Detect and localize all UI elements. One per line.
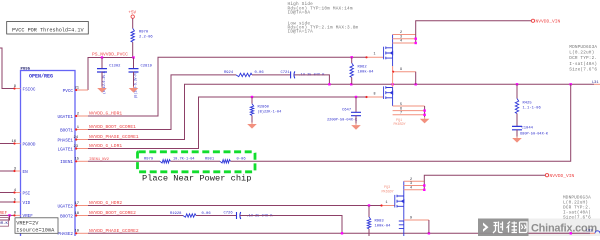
ground below PQ1: [424, 117, 426, 119]
svg-text:R924: R924: [224, 71, 234, 75]
capacitor C2819: [129, 69, 139, 72]
svg-text:9: 9: [410, 216, 412, 220]
svg-text:100k-04: 100k-04: [375, 224, 392, 229]
ground below C2819: [133, 87, 135, 89]
wire BOOT1 net: [88, 75, 236, 130]
wire LGATE to C647: [355, 97, 357, 112]
wire PHASE1 / switch node to L31: [88, 84, 594, 139]
wire R924 to C721: [252, 74, 291, 76]
wire pin9 to phase: [415, 72, 417, 85]
pin stub L32: [590, 232, 595, 234]
junction phase/C721: [328, 83, 330, 85]
svg-text:.1U-25-04X-K: .1U-25-04X-K: [299, 74, 326, 78]
op-amp U1: PWM controller PU95 box: [21, 71, 76, 240]
junction phase/ISEN riser: [570, 83, 572, 85]
wire R970 to PVCC net: [132, 42, 134, 57]
wire PHASE2 / switch node 2: [88, 232, 590, 234]
wire LGATE1 net: [88, 97, 366, 149]
wire phase to R425: [516, 84, 518, 98]
wire C2819 to gnd: [133, 72, 135, 87]
svg-text:DCR TYP:2.: DCR TYP:2.: [569, 56, 597, 61]
note box: PVCC POR Threshold: [7, 22, 89, 35]
pin stub PQ3 pin2: [404, 180, 425, 182]
resistor R981: [220, 160, 231, 163]
drain lead PQ1 high: [392, 35, 394, 48]
pin stub PQ1 pin6: [393, 110, 425, 112]
pin stub PQ3 pin9: [404, 219, 429, 221]
svg-text:I-sat(40A): I-sat(40A): [569, 62, 597, 67]
svg-text:PVCC POR Threshold=4.1V: PVCC POR Threshold=4.1V: [12, 27, 84, 33]
junction pin3: [415, 38, 417, 40]
wire R979 to R981: [171, 160, 221, 162]
svg-text:BOOT1: BOOT1: [60, 128, 73, 133]
svg-text:C647: C647: [342, 109, 351, 113]
wire UGATE2 to R983: [368, 206, 370, 218]
svg-text:9: 9: [400, 68, 402, 72]
pin stub PQ3 pin4: [404, 189, 425, 191]
svg-text:Place Near Power chip: Place Near Power chip: [142, 174, 251, 184]
svg-text:R970: R970: [139, 31, 149, 35]
svg-text:(B)22K-1-04: (B)22K-1-04: [258, 110, 282, 115]
off-page connector NVVDD_VIN bottom: [545, 174, 548, 177]
pin stub ISEN1: [75, 160, 88, 162]
wire PQ3 drain bus to VIN: [424, 175, 545, 190]
svg-text:R983: R983: [375, 220, 385, 224]
source lead PQ3: [403, 206, 405, 236]
wire C647 to gnd: [355, 116, 357, 124]
inductor L32 coil (cut off): [595, 231, 600, 234]
svg-text:PU95: PU95: [21, 68, 31, 72]
svg-text:L32: L32: [586, 230, 592, 234]
resistor R983: [367, 217, 370, 229]
capacitor C1044: [512, 126, 522, 129]
wire VID net: [0, 201, 14, 203]
junction pin6: [423, 109, 425, 111]
svg-text:NVVDD_VIN: NVVDD_VIN: [536, 18, 561, 24]
svg-text:R1928: R1928: [170, 212, 182, 216]
resistor R970: [131, 28, 134, 42]
watermark CJK glyphs (drawn): [493, 222, 527, 234]
wire BOOT2 net: [88, 215, 183, 217]
off-page connector NVVDD_VIN top: [531, 19, 534, 22]
svg-text:PSI: PSI: [23, 191, 31, 196]
junction C1302: [101, 56, 103, 58]
svg-text:R425: R425: [523, 101, 533, 105]
wire C1044 to gnd: [516, 130, 518, 137]
svg-text:NB_REF: NB_REF: [0, 212, 8, 216]
svg-text:4: 4: [400, 40, 402, 44]
pin stub UGATE1: [75, 115, 88, 117]
svg-text:PHASE2: PHASE2: [58, 232, 74, 236]
pin stub PHASE1: [75, 139, 88, 141]
junction pin7: [423, 114, 425, 116]
pin stub LGATE1: [75, 148, 88, 150]
svg-text:LGATE1: LGATE1: [58, 147, 74, 152]
svg-text:1.1-1-06: 1.1-1-06: [523, 106, 542, 110]
resistor R1928: [183, 214, 196, 217]
svg-text:1: 1: [373, 53, 375, 57]
phase2 wire segment over watermark: [529, 232, 591, 234]
pin stub PQ1 pin3: [393, 38, 416, 40]
pin stub PGOOD: [14, 143, 21, 145]
svg-text:UGATE1: UGATE1: [58, 115, 74, 120]
pin stub BOOT1: [75, 129, 88, 131]
svg-text:L31: L31: [592, 81, 598, 85]
svg-text:PHASE1: PHASE1: [58, 138, 74, 143]
svg-text:R962: R962: [358, 65, 368, 69]
svg-text:PQ3: PQ3: [384, 186, 390, 190]
wire UGATE1 to R962: [351, 57, 353, 63]
pin stub PHASE2: [75, 232, 88, 234]
pin stub VREF: [14, 214, 21, 216]
pin stub PSI: [14, 192, 21, 194]
junction phase/R962: [350, 83, 352, 85]
junction phase2/C726: [341, 232, 343, 234]
capacitor C647: [351, 112, 361, 115]
inductor L32 coil (over watermark, cut off): [595, 231, 600, 234]
svg-text:MDNPUD6G3A: MDNPUD6G3A: [569, 45, 597, 50]
svg-text:VREF=2V: VREF=2V: [16, 221, 39, 227]
resistor R979: [160, 160, 171, 163]
wire source bus to gnd: [424, 106, 426, 117]
wire R962 to phase: [351, 77, 353, 84]
transistor Q1a: PQ1 high-side FET: [384, 47, 393, 60]
wire PVCC net: [88, 58, 134, 91]
svg-text:1: 1: [385, 201, 387, 205]
wire VREF net: [0, 214, 14, 216]
junction PQ3 pin4: [423, 189, 425, 191]
wire R2860 to gnd: [251, 116, 253, 123]
pin stub PQ1 pin5: [393, 105, 425, 107]
pin stub gate PQ1 high-side: [366, 56, 384, 58]
wire C721 to phase: [294, 75, 329, 84]
capacitor C1302: [97, 69, 107, 72]
svg-text:4: 4: [410, 187, 412, 191]
ground below C1044: [516, 137, 518, 139]
junction R2860: [251, 96, 253, 98]
junction phase/FET: [391, 83, 393, 85]
svg-text:2200P-50-04X-K: 2200P-50-04X-K: [327, 119, 358, 123]
svg-text:VID: VID: [23, 201, 31, 206]
wire ISEN to inductor sense point: [231, 84, 571, 161]
watermark box: [478, 219, 529, 237]
wire R983 below (cut off): [368, 229, 370, 236]
svg-text:PVCC: PVCC: [63, 89, 74, 94]
svg-text:Size(7.6*6: Size(7.6*6: [569, 68, 597, 73]
junction C647: [355, 96, 357, 98]
wire UGATE2 net: [88, 205, 381, 207]
highlight dashed box: place near power chip: [138, 152, 256, 172]
capacitor C726: [236, 212, 238, 219]
wire R425 to C1044: [516, 114, 518, 127]
wire +5V to R970: [132, 18, 134, 28]
svg-text:.1U-25-04X-K: .1U-25-04X-K: [247, 214, 274, 218]
svg-text:FSIOC: FSIOC: [23, 87, 36, 92]
wire branch to 0R resistor (off-page): [0, 215, 10, 220]
junction on VREF wire: [8, 214, 10, 216]
junction phase2 right: [570, 232, 572, 234]
drain lead PQ3: [403, 181, 405, 196]
pin stub FSIOC: [14, 88, 21, 90]
junction phase2/pin9: [428, 232, 430, 234]
wire source to phase: [392, 72, 394, 85]
junction R962 top: [351, 56, 353, 58]
svg-text:7: 7: [400, 112, 402, 116]
wire VIN bus to off-page: [416, 21, 531, 43]
svg-text:0R-K: 0R-K: [0, 222, 9, 226]
svg-text:2.2-06: 2.2-06: [139, 36, 153, 40]
svg-text:L(0.22uH): L(0.22uH): [569, 51, 594, 56]
junction pin4: [415, 42, 417, 44]
pin stub PQ1 pin4: [393, 42, 416, 44]
svg-text:C2819: C2819: [141, 65, 153, 69]
pin stub EN: [14, 170, 21, 172]
svg-text:PK6SDY: PK6SDY: [394, 123, 406, 127]
wire to C1302: [101, 58, 103, 69]
svg-text:R979: R979: [144, 158, 154, 162]
wire ISEN1 to R979: [88, 160, 160, 162]
wire LGATE to R2860: [251, 97, 253, 104]
wire PQ3 pin9 to phase2: [428, 220, 430, 233]
note box VREF=2V: [15, 218, 58, 234]
pin stub gate PQ3: [381, 205, 395, 207]
wire phase to PQ1 low drain: [392, 84, 394, 87]
resistor body (off left edge): [0, 218, 9, 227]
junction R983: [368, 204, 370, 206]
pin stub PQ1 pin7: [393, 114, 425, 116]
wire to C2819: [133, 58, 135, 69]
svg-text:5: 5: [400, 103, 402, 107]
pin stub gate PQ1 low-side: [366, 96, 384, 98]
svg-text:(B)10U-6.3V-M: (B)10U-6.3V-M: [134, 74, 138, 99]
svg-text:C726: C726: [224, 212, 234, 216]
svg-text:C721: C721: [281, 71, 291, 75]
svg-text:NVVDD_VIN: NVVDD_VIN: [550, 173, 575, 179]
svg-text:8: 8: [373, 92, 375, 96]
wire UGATE1 net: [88, 57, 366, 116]
svg-text:C1302: C1302: [109, 65, 121, 69]
wire PSI net: [0, 192, 14, 194]
capacitor C721: [290, 71, 292, 78]
resistor R962: [350, 63, 353, 77]
wire PGOOD net: [0, 143, 14, 145]
svg-text:ID@TA=17A: ID@TA=17A: [288, 30, 314, 35]
wire C726 to phase2: [240, 216, 342, 234]
svg-text:UGATE2: UGATE2: [58, 204, 74, 209]
junction C2819/R970: [132, 56, 134, 58]
junction PQ3 pin3: [423, 184, 425, 186]
ground below R2860: [251, 123, 253, 125]
junction phase/R425: [516, 83, 518, 85]
svg-text:PQ1: PQ1: [396, 119, 402, 123]
resistor R2860: [250, 104, 253, 116]
transistor Q1b: PQ1 low-side FET: [384, 86, 393, 99]
svg-text:C1044: C1044: [522, 127, 534, 131]
junction phase/pin9: [415, 83, 417, 85]
PQ3 source pin ticks: [399, 221, 404, 229]
wire C1302 to gnd: [101, 72, 103, 87]
resistor R924: [236, 73, 252, 76]
wire R1928 to C726: [196, 215, 237, 217]
svg-text:ISEN1: ISEN1: [60, 160, 73, 165]
svg-text:PS_NVVDD_PVCC: PS_NVVDD_PVCC: [92, 52, 128, 58]
pin stub PQ3 pin3: [404, 185, 425, 187]
svg-text:R981: R981: [205, 158, 215, 162]
pin stub PQ1 pin2: [393, 34, 416, 36]
transistor Q3a: PQ3 high-side FET: [395, 195, 404, 208]
svg-text:100k-04: 100k-04: [358, 69, 375, 74]
resistor R425: [515, 99, 518, 114]
watermark chevron: [483, 223, 489, 232]
pin stub L31: [594, 83, 600, 85]
pin stub VID: [14, 201, 21, 203]
source lead PQ1 low: [392, 98, 394, 106]
wire EN net: [0, 170, 14, 172]
pin stub PQ1 pin9: [393, 71, 416, 73]
ground below C647: [355, 124, 357, 126]
svg-text:ID@TA=8A: ID@TA=8A: [288, 10, 311, 15]
svg-text:PK6SDY: PK6SDY: [382, 191, 394, 195]
svg-text:BOOT2: BOOT2: [60, 214, 73, 219]
svg-text:R2860: R2860: [258, 106, 270, 110]
svg-text:EN: EN: [23, 170, 29, 175]
svg-text:OPEN/REG: OPEN/REG: [29, 74, 53, 80]
pin stub BOOT2: [75, 215, 88, 217]
svg-text:680P-50-04X-K: 680P-50-04X-K: [520, 132, 549, 136]
pin stub PVCC: [75, 89, 88, 91]
svg-text:Isource=10mA: Isource=10mA: [16, 228, 55, 234]
ground below C1302: [101, 87, 103, 89]
source lead PQ1 high: [392, 58, 394, 66]
svg-text:PGOOD: PGOOD: [23, 142, 36, 147]
wire FSIOC net from left edge: [0, 48, 14, 89]
pin stub UGATE2: [75, 205, 88, 207]
